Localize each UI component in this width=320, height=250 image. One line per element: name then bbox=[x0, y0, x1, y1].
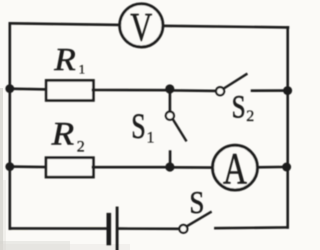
svg-text:V: V bbox=[130, 4, 152, 49]
node: S1 bottom junction bbox=[165, 162, 174, 171]
wire: ammeter to right side bbox=[257, 166, 288, 169]
switch S1 lower stub bbox=[169, 152, 172, 167]
node: right row3 junction bbox=[282, 163, 291, 172]
wire: R2 to node at S1 bottom bbox=[93, 166, 170, 169]
switch S1 lever bbox=[173, 119, 186, 140]
switch S moving contact circle bbox=[179, 225, 187, 233]
wire: R1 to node at S1 top bbox=[93, 89, 170, 92]
wire: bottom side, left of battery bbox=[10, 227, 107, 230]
svg-text:S: S bbox=[131, 106, 146, 146]
wire: top side, left of voltmeter bbox=[10, 23, 121, 25]
svg-text:2: 2 bbox=[77, 138, 85, 155]
wire: right side bbox=[286, 27, 289, 227]
scan shading bottom-left bbox=[0, 241, 70, 250]
wire: node to ammeter bbox=[170, 166, 214, 169]
svg-text:R: R bbox=[50, 117, 74, 153]
svg-text:2: 2 bbox=[246, 108, 254, 125]
resistor R1 bbox=[46, 80, 93, 100]
wire: node to switch S2 bbox=[170, 89, 216, 92]
svg-text:1: 1 bbox=[79, 62, 86, 77]
switch S1 moving contact circle bbox=[166, 112, 174, 120]
node: left row3 junction bbox=[5, 162, 14, 171]
voltmeter V circle bbox=[120, 4, 163, 47]
wire: left side bbox=[9, 23, 12, 228]
switch S lever bbox=[187, 212, 211, 226]
switch S1 upper stub bbox=[169, 89, 172, 112]
scan shading left edge bbox=[0, 88, 3, 250]
svg-text:S: S bbox=[189, 184, 204, 220]
svg-text:A: A bbox=[223, 143, 247, 193]
svg-text:S: S bbox=[232, 90, 246, 126]
wire: bottom side, right of switch S bbox=[215, 226, 287, 229]
wire: row 2 left segment to R1 bbox=[10, 87, 47, 90]
switch S2 moving contact circle bbox=[216, 87, 224, 95]
wire: bottom side, battery to switch S bbox=[119, 227, 180, 230]
resistor R2 bbox=[46, 158, 93, 177]
node: left row2 junction bbox=[5, 84, 14, 93]
battery positive plate (long thin) bbox=[116, 208, 119, 250]
wire: row 3 left segment to R2 bbox=[10, 165, 46, 168]
switch S2 fixed contact wire bbox=[252, 89, 288, 92]
wire: top side, right of voltmeter bbox=[162, 26, 288, 28]
node: right row2 junction bbox=[283, 86, 292, 95]
svg-text:R: R bbox=[53, 42, 76, 77]
ammeter A circle bbox=[213, 145, 258, 190]
battery negative plate (short thick) bbox=[107, 215, 112, 243]
node: S1 top junction bbox=[165, 84, 174, 93]
switch S2 lever bbox=[224, 74, 247, 88]
svg-text:1: 1 bbox=[147, 130, 155, 147]
